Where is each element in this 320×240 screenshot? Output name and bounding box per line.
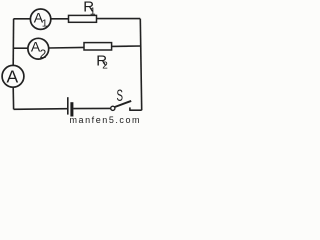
svg-text:S: S bbox=[117, 86, 124, 105]
svg-text:1: 1 bbox=[42, 18, 48, 30]
svg-text:A: A bbox=[6, 66, 18, 86]
svg-text:2: 2 bbox=[102, 61, 108, 72]
svg-text:1: 1 bbox=[90, 6, 96, 18]
svg-text:2: 2 bbox=[40, 47, 47, 61]
svg-text:manfen5.com: manfen5.com bbox=[70, 115, 142, 124]
